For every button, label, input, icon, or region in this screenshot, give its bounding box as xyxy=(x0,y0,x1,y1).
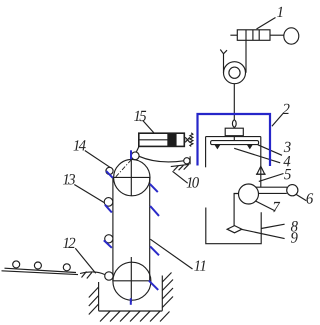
tail pulley horizontal axis xyxy=(113,280,151,282)
leader 11 xyxy=(150,239,192,269)
wall spring zigzag xyxy=(190,133,193,147)
thermocouple symbol 5 xyxy=(257,166,265,174)
blue tick roller b xyxy=(105,205,112,213)
crank knob ellipse xyxy=(284,28,299,44)
blue tick belt right 3 xyxy=(150,246,159,255)
pipe from blower xyxy=(234,194,238,226)
belt roller a xyxy=(106,167,113,174)
anchor pin xyxy=(189,156,191,164)
furnace chamber left wall xyxy=(205,137,207,168)
belt roller d xyxy=(105,272,113,280)
drum 1 left stub xyxy=(230,34,237,36)
blue tick top roller xyxy=(130,150,132,159)
dash-dot radius xyxy=(116,157,134,177)
blue tick roller a xyxy=(106,171,113,178)
shaft lower line xyxy=(258,192,286,194)
leader 9 xyxy=(242,229,285,238)
tension roller xyxy=(131,152,139,160)
shaft upper line xyxy=(256,186,287,188)
feed roller 3 xyxy=(63,264,70,271)
leader 8 xyxy=(261,224,284,228)
blue tick marks xyxy=(104,150,159,304)
table break tick 2 xyxy=(87,273,92,279)
belt right edge xyxy=(149,177,151,281)
pedestal hatch left 2 xyxy=(89,296,99,307)
motor 6 xyxy=(287,185,298,196)
protective hood 2 blue frame xyxy=(198,114,271,166)
cable pulley to hook xyxy=(233,84,235,120)
drum 1 crank link xyxy=(270,34,284,36)
leader 5 xyxy=(259,174,284,182)
leader 13 xyxy=(74,185,104,203)
pedestal hatch right 3 xyxy=(162,288,173,299)
sprayer diamond 9 xyxy=(227,226,242,233)
burner nozzle right xyxy=(248,145,252,149)
label 9 xyxy=(291,232,298,242)
pedestal hatch left 3 xyxy=(89,304,99,315)
leader 12 xyxy=(75,248,95,273)
leader 14 xyxy=(85,151,110,168)
label 2 xyxy=(283,104,290,114)
anchor hatch 1 xyxy=(174,166,179,171)
belt left edge xyxy=(112,177,114,281)
belt roller b xyxy=(104,198,113,207)
suspension block 3 xyxy=(225,128,243,136)
leader 2 xyxy=(272,114,283,127)
label 6 xyxy=(307,193,314,203)
tail pulley vertical axis xyxy=(130,257,132,302)
burner plate 4 xyxy=(211,141,259,145)
pedestal hatch bottom 1 xyxy=(100,311,110,321)
blower 7 xyxy=(239,184,259,204)
feed roller 2 xyxy=(34,262,41,269)
burner nozzle left xyxy=(215,145,219,149)
pedestal left wall xyxy=(98,282,100,311)
rod clevis X xyxy=(184,137,190,142)
furnace chamber right wall xyxy=(260,137,262,187)
blue tick belt right 2 xyxy=(150,206,159,216)
label 4 xyxy=(283,156,290,166)
blue tick belt right 1 xyxy=(150,184,158,192)
pedestal hatch left 1 xyxy=(89,287,99,298)
leader 10 xyxy=(173,171,188,183)
label 12 xyxy=(63,238,75,248)
tension rod to roller xyxy=(136,146,139,152)
label 3 xyxy=(284,142,291,152)
head pulley horizontal axis xyxy=(114,176,150,178)
quench tank 8 xyxy=(206,208,261,244)
pedestal hatch bottom 5 xyxy=(140,311,150,321)
tail pulley xyxy=(113,262,151,300)
guide pulley outer xyxy=(224,62,246,84)
anchor hatch 3 xyxy=(184,165,189,170)
leader 6 xyxy=(296,194,306,200)
label 10 xyxy=(187,177,199,188)
cable roller to anchor xyxy=(139,156,184,162)
blue tick tail pulley xyxy=(149,281,158,290)
label 5 xyxy=(284,169,291,179)
label 8 xyxy=(291,221,298,232)
cable from anchor to pulley xyxy=(223,54,225,73)
pedestal hatch right 2 xyxy=(162,280,173,291)
pedestal hatch bottom 7 xyxy=(160,312,170,322)
pedestal hatch bottom 3 xyxy=(120,311,130,321)
label 13 xyxy=(63,174,75,184)
feed table line lower xyxy=(2,271,79,275)
label 15 xyxy=(134,111,146,121)
label 11 xyxy=(194,261,205,271)
feed curve to roller xyxy=(80,272,105,275)
label 1 xyxy=(277,7,282,17)
anchor base line xyxy=(171,164,190,166)
guide pulley hub xyxy=(229,67,240,78)
head pulley vertical axis xyxy=(130,154,132,196)
hoist drum 1 body xyxy=(237,30,270,41)
belt roller c xyxy=(105,235,113,243)
pedestal bottom xyxy=(99,310,163,312)
feed roller 1 xyxy=(13,261,20,268)
pedestal hatch right 4 xyxy=(162,297,173,308)
drum 1 internal divisions xyxy=(246,30,259,41)
blue tick roller c xyxy=(104,240,112,248)
cable from drum down to pulley xyxy=(245,40,247,72)
label 14 xyxy=(73,140,85,150)
feed table line upper xyxy=(5,268,77,272)
head pulley 14 xyxy=(114,159,150,195)
furnace chamber top xyxy=(206,136,261,138)
fixed anchor V symbol xyxy=(220,50,227,54)
label 7 xyxy=(273,202,280,212)
pedestal hatch bottom 6 xyxy=(150,311,160,321)
piston rod line xyxy=(139,139,168,141)
pedestal hatch bottom 4 xyxy=(130,311,140,321)
anchor hatch 2 xyxy=(179,165,184,170)
blue tick below tail pulley xyxy=(130,298,132,305)
pedestal hatch right 1 xyxy=(162,273,171,283)
leader 3 xyxy=(258,145,282,156)
pedestal hatch bottom 2 xyxy=(110,311,120,321)
leader 4 xyxy=(234,148,280,163)
leader 1 xyxy=(257,18,276,30)
hanger rod xyxy=(233,136,235,141)
table break tick 1 xyxy=(82,272,87,278)
leader 7 xyxy=(256,201,276,211)
pedestal right wall xyxy=(161,276,163,311)
tensioner cylinder 15 xyxy=(139,133,185,146)
leader 15 xyxy=(143,121,154,133)
lifting eye xyxy=(232,120,236,128)
piston xyxy=(168,134,176,146)
anchor eyelet xyxy=(184,158,190,164)
